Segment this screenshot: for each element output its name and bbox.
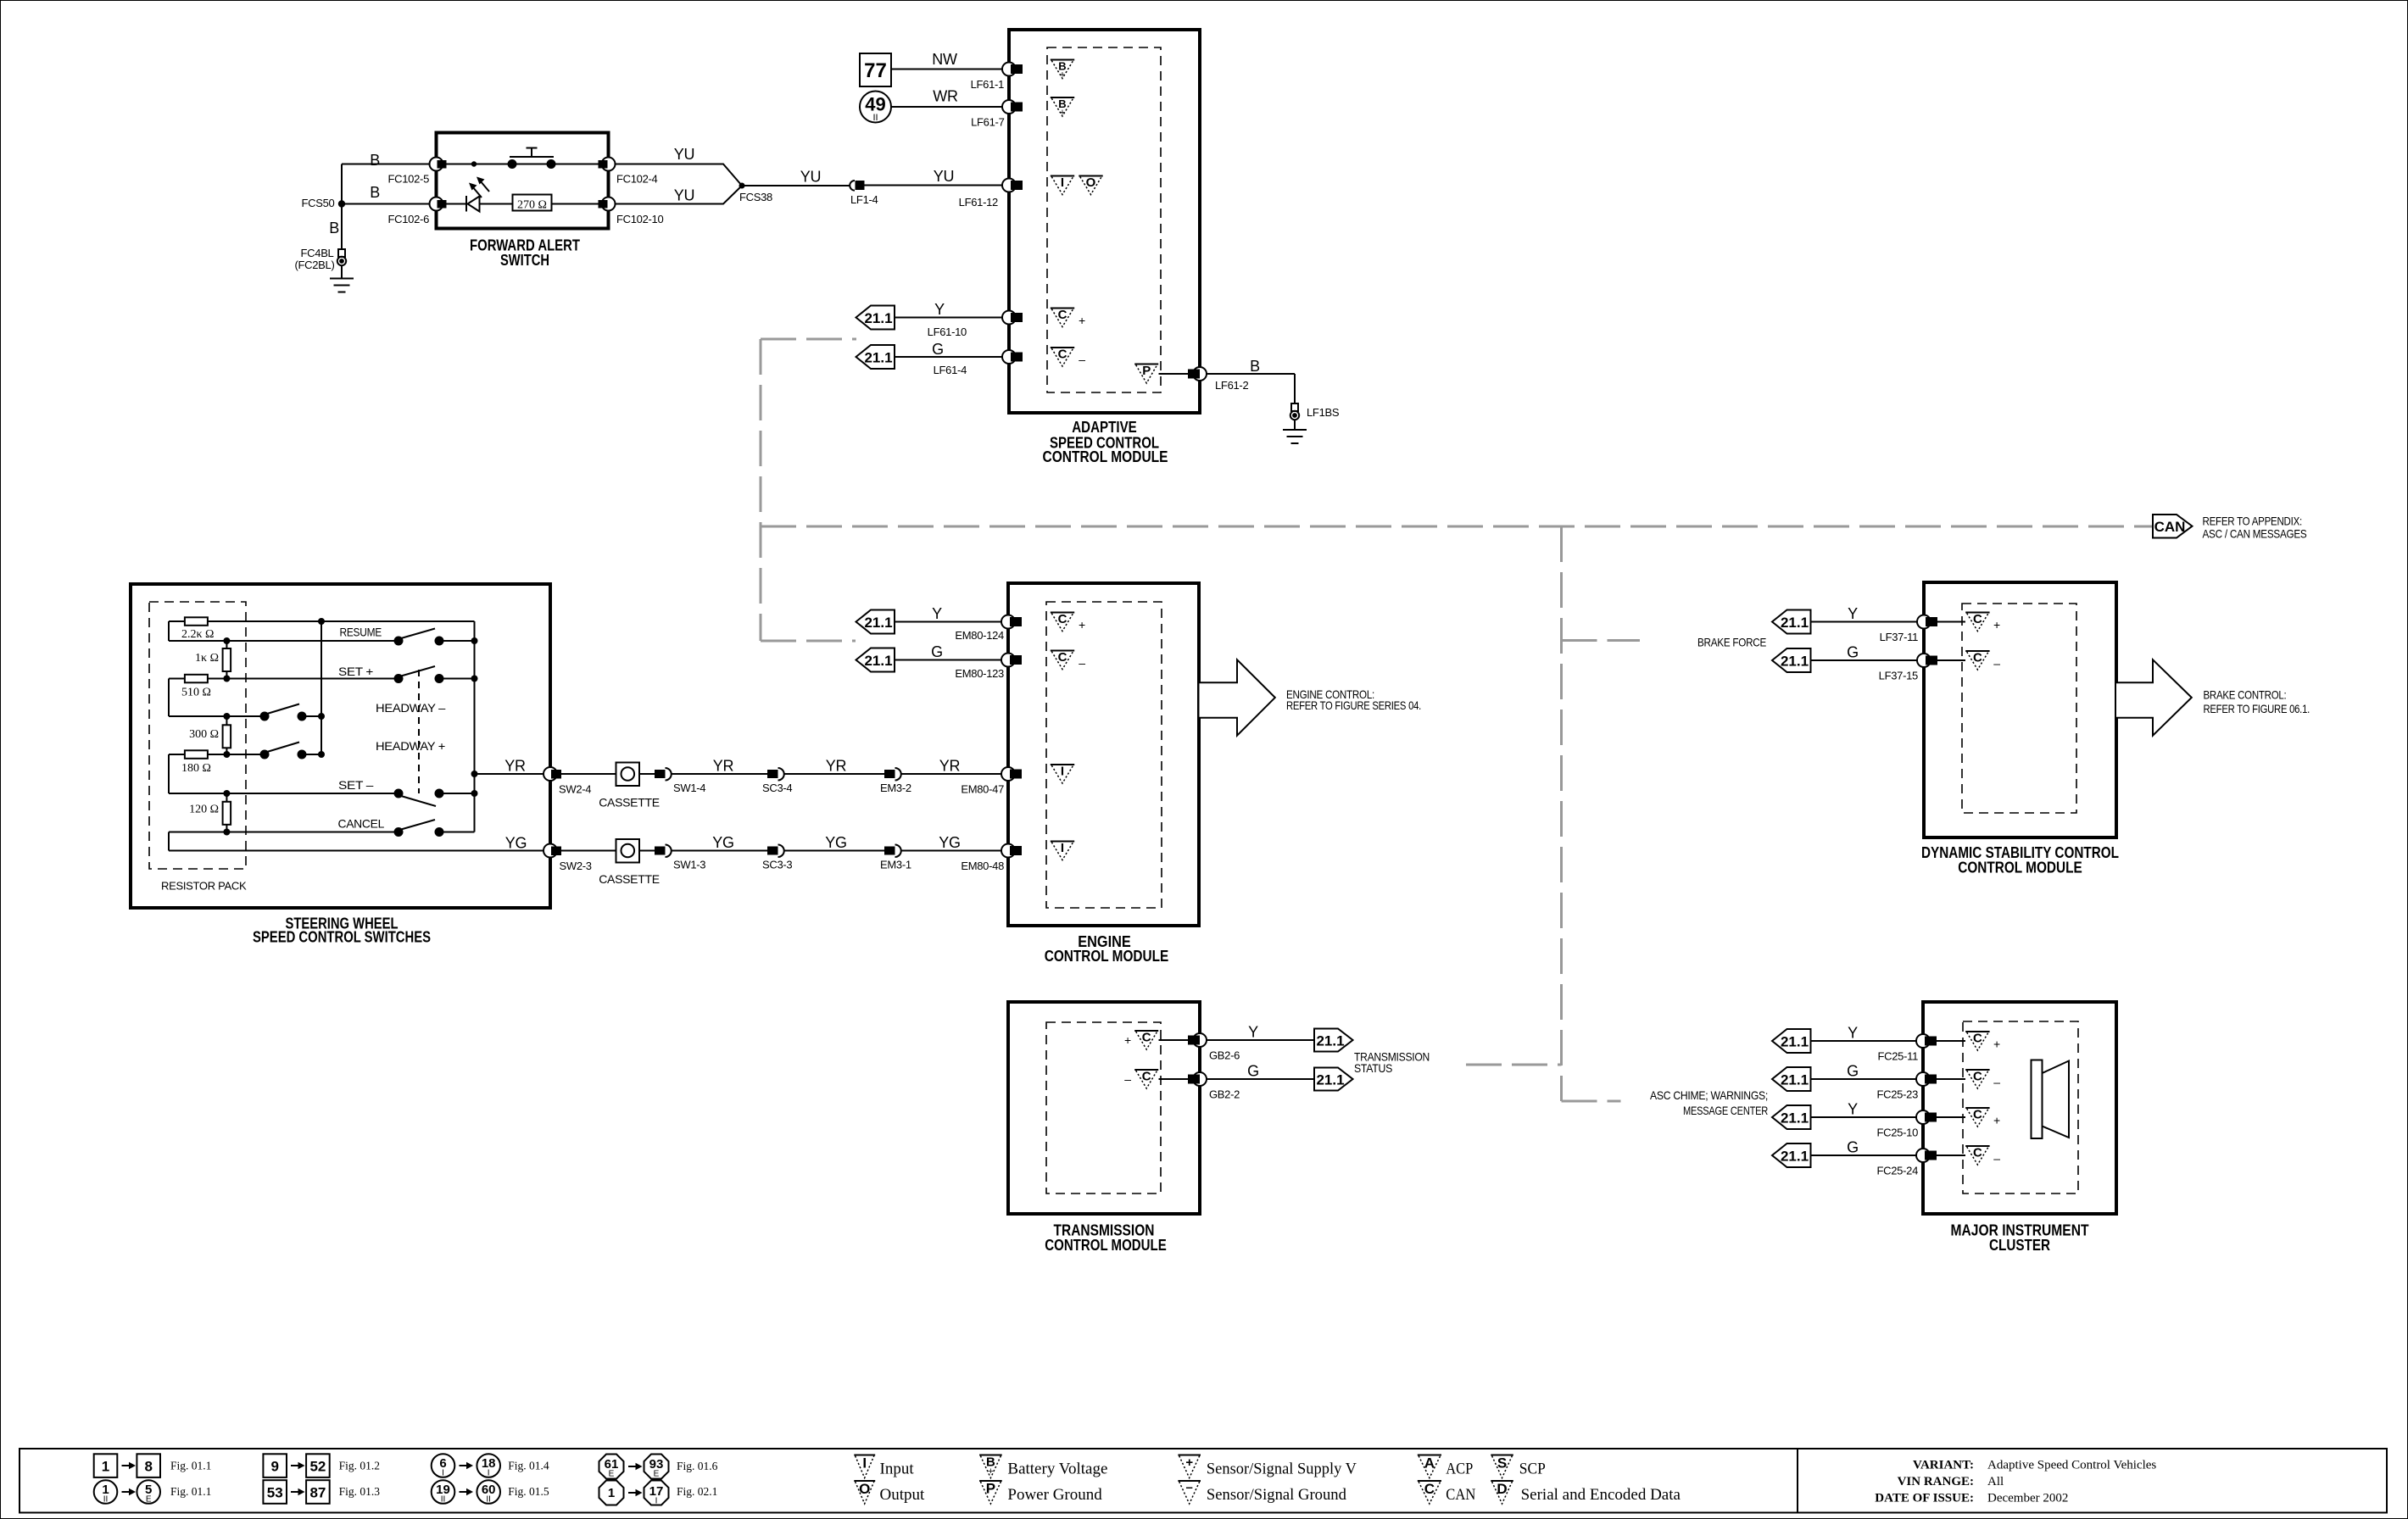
svg-text:–: –	[1993, 1152, 2000, 1166]
label LF1BS	[1307, 406, 1340, 419]
cassette connector (YR)	[616, 763, 640, 787]
label + (EM80-124)	[1079, 618, 1085, 632]
triangle C- (DSC)	[1965, 651, 1989, 670]
label FC102-5	[388, 173, 430, 186]
triangle C- (MIC 1)	[1965, 1070, 1989, 1089]
junction (rail RESUME)	[471, 637, 478, 644]
svg-text:B: B	[370, 184, 380, 201]
label FC4BL (FC2BL)	[294, 247, 334, 271]
wire (FC25-11 to C+)	[1937, 1040, 1965, 1042]
svg-text:Fig. 01.2: Fig. 01.2	[339, 1460, 380, 1472]
wire YG (SC3-3 to EM3-1)	[784, 850, 885, 852]
label 2.2k ohm	[181, 628, 214, 641]
engine control module box	[1008, 583, 1199, 926]
legend connector squares 1 to 8 Fig. 01.1	[94, 1454, 212, 1477]
label YU (bottom)	[674, 187, 694, 204]
junction (row D resistor tap)	[223, 713, 230, 720]
note TRANSMISSION STATUS	[1354, 1050, 1430, 1076]
gray bus: upper-left branch to ASC	[761, 338, 856, 341]
svg-text:LF61-1: LF61-1	[971, 78, 1004, 91]
wire Y to FC25-11	[1811, 1040, 1920, 1042]
svg-text:Power Ground: Power Ground	[1007, 1486, 1102, 1504]
svg-text:SET +: SET +	[338, 665, 373, 678]
label SET -	[338, 778, 374, 792]
svg-text:CANCEL: CANCEL	[338, 817, 385, 831]
svg-text:EM80-124: EM80-124	[955, 629, 1004, 642]
svg-text:9: 9	[270, 1459, 278, 1475]
label YG (in box)	[505, 835, 527, 852]
svg-text:–: –	[1124, 1072, 1131, 1086]
pin FC25-23	[1916, 1072, 1937, 1086]
wire WR	[891, 106, 1006, 108]
pin FC102-10	[599, 198, 616, 211]
gray bus: lower-left branch to ECM	[761, 640, 856, 643]
label SW1-3	[673, 859, 705, 871]
junction (120 bottom)	[223, 829, 230, 836]
svg-text:B: B	[1250, 358, 1260, 375]
svg-text:300 Ω: 300 Ω	[189, 728, 219, 741]
svg-text:I: I	[862, 1455, 867, 1472]
svg-text:BRAKE CONTROL:: BRAKE CONTROL:	[2204, 688, 2287, 702]
svg-text:53: 53	[267, 1485, 283, 1501]
svg-text:YR: YR	[939, 758, 961, 775]
legend connector squares 53 to 87 Fig. 01.3	[263, 1480, 380, 1504]
svg-text:21.1: 21.1	[864, 350, 892, 366]
label FC102-10	[616, 213, 663, 225]
wire left jog E-F	[168, 754, 170, 793]
svg-text:C: C	[1058, 348, 1067, 362]
svg-text:EM80-48: EM80-48	[961, 860, 1004, 872]
wire Y to EM80-124	[895, 621, 1005, 623]
svg-text:+: +	[1060, 108, 1065, 118]
label SET +	[338, 665, 373, 678]
label - (LF37-15)	[1993, 657, 2000, 670]
pin FC102-6	[430, 198, 447, 211]
svg-text:HEADWAY –: HEADWAY –	[376, 701, 446, 715]
label STEERING WHEEL SPEED CONTROL SWITCHES	[253, 915, 431, 946]
label SC3-4	[762, 782, 792, 794]
label SC3-3	[762, 859, 792, 871]
label LF61-1	[971, 78, 1004, 91]
label LF61-12	[959, 196, 998, 209]
ground (FC4BL)	[330, 265, 354, 292]
svg-text:–: –	[1993, 657, 2000, 670]
legend symbol Output	[854, 1481, 925, 1504]
triangle I (EM80-47)	[1051, 765, 1074, 784]
svg-text:I: I	[488, 1469, 490, 1478]
transmission control module box	[1008, 1002, 1200, 1214]
svg-text:C: C	[1058, 308, 1067, 322]
label LF61-4	[934, 364, 967, 376]
svg-text:FCS38: FCS38	[739, 191, 772, 203]
label - (GB2-2)	[1124, 1072, 1131, 1086]
legend symbol Sensor/Signal Supply V	[1178, 1455, 1357, 1478]
pin LF61-7	[1002, 100, 1023, 114]
TCM inner dashed box	[1046, 1022, 1161, 1193]
wire (C- to GB2-2)	[1159, 1078, 1189, 1080]
svg-text:YU: YU	[800, 169, 821, 186]
wire YU to LF61-12	[865, 185, 1006, 186]
label + (LF61-10)	[1079, 314, 1085, 327]
CAN symbol	[2153, 515, 2193, 538]
svg-text:II: II	[872, 113, 878, 123]
wire (C+ to GB2-6)	[1159, 1039, 1189, 1041]
svg-text:21.1: 21.1	[1316, 1072, 1344, 1088]
wire row E (HEADWAY+)	[169, 754, 321, 755]
svg-text:Y: Y	[934, 301, 945, 318]
label LF61-2	[1215, 379, 1248, 392]
svg-text:LF37-11: LF37-11	[1880, 631, 1918, 643]
label GB2-2	[1209, 1088, 1240, 1101]
switch HEADWAY-	[260, 704, 307, 721]
pentagon 21.1 (ECM G)	[856, 648, 895, 672]
label DYNAMIC STABILITY CONTROL CONTROL MODULE	[1921, 844, 2119, 876]
resistor 270 ohm	[513, 195, 552, 212]
svg-text:E: E	[146, 1495, 152, 1505]
pin LF37-15	[1917, 654, 1937, 667]
label G (DSC)	[1847, 644, 1859, 661]
switch SET+	[394, 666, 444, 683]
svg-text:CONTROL MODULE: CONTROL MODULE	[1045, 948, 1169, 965]
source 77	[860, 53, 891, 86]
note BRAKE CONTROL refer	[2204, 688, 2310, 716]
switch HEADWAY+	[260, 743, 307, 759]
label EM80-124	[955, 629, 1004, 642]
wire G to LF37-15	[1811, 659, 1921, 661]
svg-text:CONTROL MODULE: CONTROL MODULE	[1958, 860, 2082, 876]
resistor R 2.2k	[185, 617, 208, 626]
label G (MIC 1)	[1847, 1063, 1859, 1080]
legend symbol SCP	[1491, 1455, 1546, 1478]
svg-text:DATE OF ISSUE:: DATE OF ISSUE:	[1875, 1492, 1974, 1505]
triangle I (EM80-48)	[1051, 841, 1074, 860]
wire (cassette to SW1-3)	[639, 850, 655, 852]
svg-text:REFER TO APPENDIX:: REFER TO APPENDIX:	[2203, 515, 2303, 528]
pentagon 21.1 (ECM Y)	[856, 610, 895, 634]
svg-text:SW1-3: SW1-3	[673, 859, 705, 871]
svg-text:C: C	[1142, 1070, 1151, 1084]
label - (LF61-4)	[1079, 353, 1085, 366]
svg-text:P: P	[986, 1481, 995, 1497]
svg-text:LF61-4: LF61-4	[934, 364, 967, 376]
wire YR (EM3-2 to EM80-47)	[901, 773, 1006, 775]
pin FC102-5	[430, 158, 447, 171]
junction (379 row A)	[318, 618, 325, 625]
pushbutton switch contacts	[508, 159, 556, 169]
svg-text:II: II	[441, 1495, 446, 1505]
wire YG (EM3-1 to EM80-48)	[901, 850, 1006, 852]
label EM80-47	[961, 783, 1004, 796]
label SW1-4	[673, 782, 705, 794]
svg-text:21.1: 21.1	[1781, 1149, 1809, 1165]
pin GB2-2	[1188, 1072, 1207, 1086]
wire (FC25-23 to C-)	[1937, 1078, 1965, 1080]
svg-text:FC4BL: FC4BL	[301, 247, 334, 259]
svg-text:REFER TO FIGURE 06.1.: REFER TO FIGURE 06.1.	[2204, 702, 2310, 715]
label WR	[933, 88, 958, 105]
pin LF61-12	[1002, 179, 1023, 192]
svg-text:CONTROL MODULE: CONTROL MODULE	[1043, 448, 1168, 465]
svg-text:A: A	[1424, 1455, 1435, 1472]
pin LF37-11	[1917, 615, 1937, 629]
junction (1k top)	[223, 637, 230, 644]
wire (FC25-24 to C-)	[1937, 1155, 1965, 1156]
pentagon 21.1 (Y in)	[856, 306, 895, 330]
svg-text:Fig. 01.3: Fig. 01.3	[339, 1485, 381, 1498]
pin SW2-4	[543, 767, 561, 781]
svg-text:SW2-4: SW2-4	[559, 783, 591, 796]
triangle C- (TCM)	[1134, 1070, 1158, 1089]
svg-text:YU: YU	[674, 187, 694, 204]
svg-text:21.1: 21.1	[864, 615, 892, 631]
label B (ground wire)	[1250, 358, 1260, 375]
legend connector octagons 61/E to 93/E Fig. 01.6	[599, 1455, 718, 1479]
label YU (merged)	[800, 169, 821, 186]
legend symbol ACP	[1418, 1455, 1474, 1478]
label GB2-6	[1209, 1049, 1240, 1062]
label FC25-23	[1877, 1088, 1919, 1101]
wire row F (SET-)	[169, 793, 475, 794]
wire row C (SET+)	[169, 678, 475, 680]
label FC102-6	[388, 213, 430, 225]
label - (FC25-23)	[1993, 1076, 2000, 1089]
resistor R 1k (vertical)	[223, 641, 231, 679]
svg-text:Sensor/Signal Ground: Sensor/Signal Ground	[1207, 1486, 1346, 1504]
label - (EM80-123)	[1079, 656, 1085, 670]
wire G to FC25-24	[1811, 1155, 1920, 1156]
wire Y (GB2-6 out)	[1207, 1039, 1314, 1041]
svg-text:SWITCH: SWITCH	[500, 252, 549, 269]
svg-text:EM3-2: EM3-2	[880, 782, 911, 794]
svg-text:G: G	[931, 643, 943, 660]
wire row G (CANCEL)	[169, 832, 475, 833]
label G (MIC 2)	[1847, 1139, 1859, 1156]
splice LF1BS	[1290, 403, 1299, 420]
label ADAPTIVE SPEED CONTROL CONTROL MODULE	[1043, 419, 1168, 465]
svg-text:LF61-10: LF61-10	[928, 325, 967, 338]
pin LF61-10	[1002, 311, 1023, 325]
svg-text:SC3-3: SC3-3	[762, 859, 792, 871]
svg-text:C: C	[1973, 1070, 1982, 1084]
svg-text:NW: NW	[932, 51, 957, 68]
pin GB2-6	[1188, 1033, 1207, 1047]
label B (vertical wire)	[329, 220, 339, 236]
label LF61-10	[928, 325, 967, 338]
svg-text:YR: YR	[826, 758, 847, 775]
svg-text:II: II	[486, 1495, 491, 1505]
triangle B+ (battery voltage, pin LF61-7)	[1051, 97, 1074, 118]
wire left jog C-D	[168, 679, 170, 717]
junction (379 row E)	[318, 751, 325, 758]
triangle C+ (ECM)	[1051, 612, 1074, 632]
wire Y to FC25-10	[1811, 1116, 1920, 1118]
junction (rail YR)	[471, 771, 478, 777]
resistor R 300 (vertical)	[223, 716, 231, 754]
wire G to FC25-23	[1811, 1078, 1920, 1080]
svg-text:WR: WR	[933, 88, 958, 105]
label + (FC25-11)	[1993, 1038, 2000, 1051]
svg-text:Adaptive Speed Control Vehicle: Adaptive Speed Control Vehicles	[1987, 1459, 2156, 1472]
label G (TCM)	[1247, 1063, 1259, 1080]
wire (LF37-15 to C-)	[1937, 659, 1965, 661]
triangle C- (MIC 2)	[1965, 1146, 1989, 1166]
ECM output arrow	[1200, 659, 1275, 735]
svg-text:Y: Y	[1248, 1024, 1258, 1041]
svg-text:180 Ω: 180 Ω	[181, 762, 211, 775]
label EM3-1	[880, 859, 911, 871]
switch CANCEL	[394, 820, 444, 837]
legend symbol Serial and Encoded Data	[1491, 1481, 1681, 1504]
wire G (GB2-2 out)	[1207, 1078, 1314, 1080]
pin EM80-123	[1001, 654, 1022, 667]
label Y (MIC 1)	[1848, 1025, 1858, 1042]
connector SC3-4	[767, 768, 784, 781]
svg-text:II: II	[103, 1495, 109, 1505]
wire YU from FC102-10	[616, 186, 743, 204]
legend connector squares 9 to 52 Fig. 01.2	[263, 1454, 380, 1477]
wire NW	[891, 69, 1006, 70]
label YG (segment 3)	[825, 834, 846, 851]
pentagon 21.1 (MIC G2)	[1772, 1143, 1811, 1167]
legend divider	[1797, 1449, 1798, 1513]
svg-text:B: B	[370, 152, 380, 169]
svg-text:ACP: ACP	[1446, 1461, 1473, 1478]
pin FC102-4	[599, 158, 616, 171]
svg-text:LF61-2: LF61-2	[1215, 379, 1248, 392]
svg-text:LF1-4: LF1-4	[850, 193, 878, 206]
label LF61-7	[971, 116, 1004, 129]
legend symbol CAN	[1418, 1481, 1476, 1504]
DSC inner dashed box	[1962, 604, 2076, 813]
label B (top wire)	[370, 152, 380, 169]
svg-text:Y: Y	[1848, 1101, 1858, 1118]
switch gang dashed link	[418, 670, 420, 793]
connector EM3-1	[884, 845, 901, 858]
triangle P (power ground)	[1134, 364, 1158, 383]
label YR (segment 2)	[713, 758, 734, 775]
junction small dot	[471, 161, 477, 166]
wire B to LF1BS	[1207, 374, 1295, 403]
legend symbol Power Ground	[979, 1481, 1102, 1505]
label FC25-24	[1877, 1165, 1919, 1177]
pin FC25-10	[1916, 1110, 1937, 1124]
legend connector octagons 1 to 17/I Fig. 02.1	[599, 1481, 718, 1506]
svg-text:P: P	[1142, 364, 1151, 378]
note ASC CHIME WARNINGS MESSAGE CENTER	[1650, 1088, 1768, 1117]
wire row B (RESUME)	[169, 640, 475, 642]
label YU (to module)	[934, 168, 954, 185]
label LF37-11	[1880, 631, 1918, 643]
pin LF61-1	[1002, 63, 1023, 76]
legend outer box	[20, 1449, 2387, 1513]
wire row D (HEADWAY-)	[169, 715, 321, 717]
svg-text:LF1BS: LF1BS	[1307, 406, 1340, 419]
svg-text:C: C	[1142, 1031, 1151, 1045]
pin FC25-24	[1916, 1149, 1937, 1162]
legend symbol Battery Voltage	[979, 1455, 1107, 1478]
speaker (chime)	[2032, 1060, 2070, 1139]
svg-text:YR: YR	[504, 758, 526, 775]
wire Y to LF37-11	[1811, 621, 1921, 623]
svg-text:Battery Voltage: Battery Voltage	[1007, 1461, 1107, 1478]
svg-text:RESISTOR PACK: RESISTOR PACK	[161, 880, 247, 893]
label HEADWAY +	[376, 739, 445, 753]
svg-text:G: G	[1847, 1139, 1859, 1156]
svg-text:CAN: CAN	[1446, 1486, 1475, 1504]
ASC control module box	[1009, 30, 1200, 413]
svg-text:SET –: SET –	[338, 778, 374, 792]
pin SW2-3	[543, 844, 561, 858]
svg-text:C: C	[1424, 1481, 1435, 1497]
svg-text:C: C	[1973, 1108, 1982, 1122]
triangle C+ (MIC 1)	[1965, 1032, 1989, 1051]
svg-text:BRAKE FORCE: BRAKE FORCE	[1697, 636, 1766, 649]
svg-text:120 Ω: 120 Ω	[189, 804, 219, 816]
wire row H (YG out)	[169, 850, 550, 852]
svg-text:Y: Y	[1848, 605, 1858, 622]
label 510 ohm	[181, 687, 211, 699]
svg-text:49: 49	[865, 94, 885, 115]
svg-text:I: I	[442, 1469, 444, 1478]
svg-text:77: 77	[864, 59, 887, 82]
svg-text:YR: YR	[713, 758, 734, 775]
svg-text:CONTROL MODULE: CONTROL MODULE	[1045, 1237, 1167, 1254]
legend variant block	[1875, 1459, 2156, 1505]
label FC25-11	[1877, 1050, 1918, 1063]
label 120 ohm	[189, 804, 219, 816]
svg-text:+: +	[1060, 70, 1065, 81]
svg-text:FCS50: FCS50	[302, 197, 335, 209]
svg-text:21.1: 21.1	[1316, 1033, 1344, 1049]
svg-text:CAN: CAN	[2154, 519, 2186, 535]
svg-text:Fig. 01.4: Fig. 01.4	[508, 1460, 549, 1472]
pentagon 21.1 (G in)	[856, 345, 895, 369]
svg-text:REFER TO FIGURE SERIES 04.: REFER TO FIGURE SERIES 04.	[1286, 698, 1421, 712]
svg-text:SPEED CONTROL SWITCHES: SPEED CONTROL SWITCHES	[253, 929, 431, 946]
svg-text:HEADWAY +: HEADWAY +	[376, 739, 445, 753]
svg-text:CASSETTE: CASSETTE	[599, 872, 660, 886]
svg-text:G: G	[932, 341, 944, 358]
svg-text:LF37-15: LF37-15	[1879, 670, 1918, 682]
svg-text:YG: YG	[712, 834, 733, 851]
svg-text:21.1: 21.1	[864, 653, 892, 669]
label CASSETTE (YR)	[599, 796, 660, 810]
junction (1k bottom)	[223, 676, 230, 682]
source 49	[860, 92, 891, 124]
svg-text:C: C	[1058, 650, 1067, 665]
switch RESUME	[394, 629, 444, 646]
pentagon 21.1 (MIC G1)	[1772, 1067, 1811, 1091]
svg-text:270 Ω: 270 Ω	[517, 199, 547, 212]
label LF37-15	[1879, 670, 1918, 682]
svg-text:LF61-7: LF61-7	[971, 116, 1004, 129]
junction (rail SET-)	[471, 790, 478, 797]
svg-text:C: C	[1058, 612, 1067, 626]
wire right rail	[474, 621, 476, 832]
label FCS50	[302, 197, 335, 209]
gray bus: brake force branch	[1562, 639, 1641, 642]
wire YR (SW2-4 to cassette)	[561, 773, 616, 775]
pentagon 21.1 (MIC Y1)	[1772, 1029, 1811, 1053]
label G (ECM)	[931, 643, 943, 660]
wire YG (SW1-3 to SC3-3)	[672, 850, 768, 852]
wire YR out	[475, 773, 551, 775]
svg-text:510 Ω: 510 Ω	[181, 687, 211, 699]
legend connector circles 6/I to 18/I Fig. 01.4	[432, 1454, 549, 1477]
svg-text:I: I	[655, 1497, 658, 1506]
node FCS50	[338, 200, 345, 207]
connector SW1-3	[655, 845, 672, 858]
